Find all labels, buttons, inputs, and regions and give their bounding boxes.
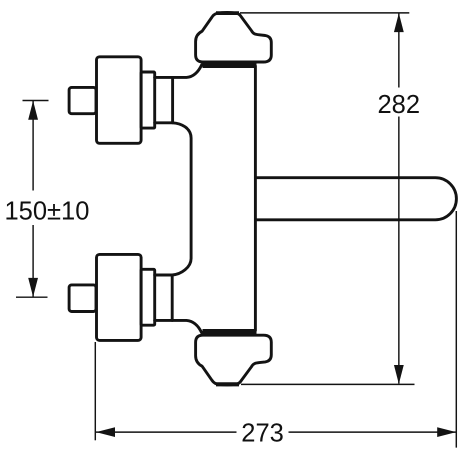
arrow 273 right [437,427,456,437]
bottom cap shoulder thick bar [203,329,257,334]
svg-text:150±10: 150±10 [5,198,90,226]
bottom cap dome thick plateau [216,382,239,386]
body right edge [254,66,257,331]
upper handle section3 [141,72,155,128]
dim 273 right extension line [455,211,457,448]
bottom escutcheon cap [196,335,272,385]
dim 282 top extension line [240,12,409,14]
arrow 150 down [28,278,38,297]
spout [255,178,456,220]
dim 150 bottom tick [16,296,48,298]
dim 282 line upper segment [398,13,400,88]
top escutcheon cap [196,12,272,62]
top cap dome thick plateau [216,11,239,15]
dim 150 line lower segment [32,225,34,297]
arrow 273 left [96,427,115,437]
svg-text:273: 273 [241,420,284,448]
dim 273 line left segment [96,431,237,433]
upper handle neck right edge [171,77,174,122]
arrow 282 down [394,365,404,384]
arrow 282 up [394,13,404,32]
lower handle body [97,254,142,340]
lower handle neck right edge [171,275,174,320]
body left edge mid between handles [155,123,191,275]
lower handle knob [69,285,96,312]
upper handle body [97,57,142,144]
body left edge upper shoulder [155,65,202,78]
dim 150 top tick [23,100,49,102]
top cap shoulder thick bar [203,63,257,68]
dim 273 line right segment [289,431,456,433]
arrow 150 up [28,101,38,120]
dim 150 line upper segment [32,101,34,191]
dim 273 left extension line [94,342,96,440]
dim 282 line lower segment [398,117,400,384]
body left edge lower shoulder [155,320,202,333]
upper handle knob [69,87,96,113]
lower handle section3 [141,269,155,325]
svg-text:282: 282 [378,91,421,119]
dim 282 bottom extension line [241,383,415,385]
